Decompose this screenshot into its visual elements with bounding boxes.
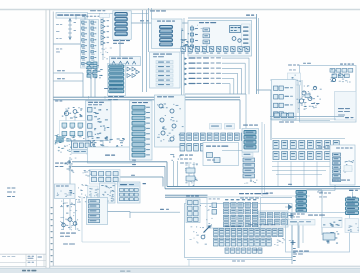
U3 left parts: [191, 25, 193, 53]
zone tick labels: [51, 207, 53, 208]
IC row bank2: [273, 152, 279, 160]
diode arrows: [127, 67, 131, 71]
signal label rows: [185, 57, 188, 60]
revision notes: [7, 188, 11, 189]
wire out: [334, 185, 336, 191]
contact cell box: [72, 141, 91, 150]
left dense contacts: [93, 66, 96, 67]
right edge box: [345, 219, 359, 233]
band header label: [248, 224, 253, 225]
cell label strip: [72, 150, 91, 154]
U8 strip: [288, 220, 315, 226]
bus junction labels: [319, 193, 323, 194]
osc outer box: [81, 197, 83, 243]
left column parts: [182, 40, 185, 41]
matrix box: [90, 170, 121, 185]
U6 label strip: [242, 153, 253, 157]
relay bank K2: [90, 20, 99, 69]
below-box marks: [232, 261, 236, 262]
strobe cluster: [326, 240, 329, 241]
relay box K4: [152, 19, 183, 49]
driver row 1: [214, 229, 219, 237]
contact row: [181, 47, 185, 52]
bank top pin labels: [82, 15, 85, 18]
logic column U4: [130, 101, 153, 160]
encoder box U2: [150, 52, 181, 88]
oscillator chains Q7 Q8: [66, 205, 69, 208]
K4 wires: [148, 8, 150, 52]
left margin double rule: [45, 10, 47, 269]
register label: [239, 193, 244, 194]
divider cell box: [87, 198, 108, 225]
wire stubs left: [56, 48, 59, 51]
small boxes above: [210, 124, 222, 130]
connector stubs J2: [291, 213, 293, 264]
top rule: [0, 9, 360, 11]
box bottom marks: [332, 180, 336, 181]
driver chain column: [185, 169, 187, 172]
register grid box: [207, 197, 261, 228]
bank drop wires: [277, 162, 279, 187]
arm-safe switch S1: [110, 57, 141, 66]
flipflop grid boxed: [259, 211, 289, 227]
pre-amp outer box: [185, 204, 293, 258]
pre-bus cluster: [172, 159, 173, 162]
input wires: [53, 72, 83, 74]
U2 wires: [181, 30, 183, 95]
U3 mid gates: [203, 28, 210, 32]
bus tap labels: [95, 103, 98, 106]
CMA relay box: [88, 147, 136, 163]
osc wires: [108, 211, 131, 213]
arrow symbol: [204, 226, 211, 233]
register cells rows: [180, 133, 185, 141]
U6 lower cluster: [243, 158, 255, 162]
input filter box: [288, 73, 301, 85]
cluster right parts: [93, 146, 96, 147]
diode CR9: [288, 204, 293, 210]
zone text: [55, 163, 59, 164]
zone note: [55, 101, 59, 102]
left small cells: [186, 199, 200, 223]
left relay cluster: [57, 137, 59, 140]
amplifier box A1: [86, 101, 112, 141]
nested corner wires: [222, 57, 249, 59]
output register box: [286, 213, 350, 253]
wire to decoder: [131, 22, 188, 24]
output labels: [293, 251, 298, 252]
mode box: [322, 218, 343, 228]
pre-amp parts: [191, 225, 193, 228]
relay bank K1: [81, 20, 90, 69]
flipflop grid: [224, 203, 229, 208]
IC row bank1: [273, 141, 279, 149]
lamp driver box: [100, 183, 116, 203]
module ref label: [104, 88, 108, 89]
zone label 4E-4: [246, 15, 250, 16]
top inner cluster: [330, 69, 335, 73]
register box U5: [203, 143, 239, 166]
L mark: [143, 183, 147, 184]
counter column U8: [296, 191, 307, 194]
switch bank box S3: [118, 182, 141, 203]
label TO: [254, 250, 258, 251]
gate row: [225, 248, 229, 253]
register cells row2: [180, 144, 185, 152]
footer text: [22, 270, 26, 272]
driver bank box: [272, 80, 297, 121]
K3 labels: [108, 96, 113, 97]
U8 labels: [292, 214, 296, 215]
feedback chain: [71, 158, 72, 161]
sheet title box: [56, 13, 88, 19]
decoder box U3: [188, 21, 252, 57]
mid band parts: [105, 137, 107, 138]
right column U7: [333, 153, 341, 156]
labels above: [288, 65, 292, 66]
diode chain CR1-CR4: [102, 16, 104, 46]
horizontal bus pair: [53, 96, 154, 98]
parts cluster: [81, 193, 82, 196]
bus line vertical: [256, 14, 258, 94]
Q12 transistor: [299, 99, 303, 103]
right cluster parts: [346, 163, 347, 166]
right section box edge: [261, 122, 263, 196]
bottom band: [0, 269, 360, 274]
page left border: [52, 12, 54, 267]
monitor outer box: [300, 66, 357, 123]
right logic box: [330, 145, 355, 185]
L1 label: [113, 40, 119, 41]
title block: [0, 253, 46, 255]
dimension arrow line: [69, 19, 71, 39]
rotary encoder box: [335, 92, 357, 121]
wire bus vertical: [142, 10, 144, 92]
driver bank lower cells: [274, 113, 280, 118]
header pin marks: [225, 199, 228, 200]
note label: [99, 13, 103, 14]
wire: [297, 222, 299, 248]
page bottom border: [50, 265, 360, 267]
relay stack K3 teal: [108, 64, 126, 96]
bank wires: [272, 138, 345, 140]
osc labels: [60, 233, 65, 234]
pre-amp label: [187, 205, 191, 206]
lower band text rows: [180, 155, 184, 156]
wire bus to monitor: [257, 89, 273, 91]
amp stage Q10 Q11: [302, 91, 306, 95]
boundary wire: [188, 17, 257, 19]
bus pair B: [165, 194, 208, 196]
cell column U6: [242, 129, 259, 153]
wire bundle lower: [270, 116, 344, 118]
zone label CE: [266, 193, 269, 194]
resistor grid R1-R9: [60, 121, 87, 141]
switch box S2: [55, 184, 76, 199]
far right stack: [346, 198, 359, 201]
bus wires upper: [72, 161, 167, 163]
relay coil stack L1: [113, 11, 132, 40]
bus pair A: [167, 186, 360, 188]
grid bottom label: [225, 226, 230, 227]
U8 wires down: [298, 226, 300, 249]
discrete cluster Q1 Q2: [64, 111, 68, 115]
module label: [150, 10, 155, 11]
bank output label: [279, 122, 284, 123]
U3 right block: [230, 26, 241, 33]
C303 signal list: [242, 24, 251, 50]
driver row 2: [214, 238, 219, 246]
diode chain tail wires: [102, 46, 104, 61]
transistor box Q3-Q6: [155, 95, 186, 147]
